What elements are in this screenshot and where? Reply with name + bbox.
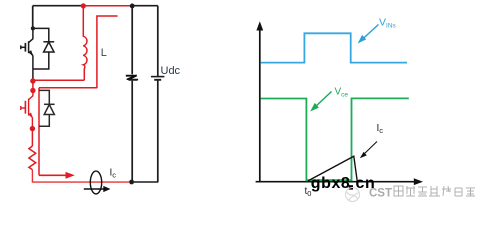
wire inductor bottom to midpoint [33, 79, 84, 81]
current probe arrow [84, 188, 106, 190]
watermark chinese glyphs [394, 186, 475, 196]
wire midpoint A to B [32, 81, 34, 91]
transistor Q1 emitter arrowhead [29, 50, 34, 56]
wire net B horizontal [39, 87, 97, 89]
svg-text:Ic: Ic [377, 123, 384, 135]
wire top rail red middle [83, 5, 132, 7]
wire branch D3 lower [131, 80, 133, 182]
node bottom junction [129, 180, 134, 185]
inductor L [83, 6, 87, 81]
node Q1 collector [31, 26, 35, 30]
battery Udc long plate [151, 76, 165, 78]
svg-text:L: L [101, 47, 107, 59]
svg-text:gbx8: gbx8 [311, 175, 351, 192]
transistor Q2 [21, 91, 33, 129]
waveform Vin cyan [261, 33, 407, 62]
transistor Q2 emitter arrowhead [29, 112, 33, 118]
wire Q1 to D1 top [33, 28, 49, 41]
diode D3 zener [126, 75, 138, 80]
wire bottom rail red [32, 170, 131, 183]
wire Q2 emitter to resistor [31, 129, 33, 146]
node top rail black junction [130, 4, 135, 9]
wire D2 top loop [39, 90, 49, 104]
x axis [256, 181, 416, 183]
arrow current direction [39, 174, 67, 176]
node top rail red junction [81, 3, 86, 8]
arrow Ic chart [363, 142, 377, 156]
wire branch D3 upper [131, 6, 133, 75]
wire branch Udc upper [157, 6, 159, 76]
wire D2 bottom loop [39, 115, 49, 127]
svg-text:VINs: VINs [379, 17, 397, 30]
arrow VINs [362, 25, 379, 41]
arrow Vce [315, 92, 332, 108]
current probe ellipse [90, 171, 101, 194]
node midpoint B [30, 88, 35, 93]
wire Q1 collector drop [32, 6, 34, 29]
wire Q1 emitter to midpoint [32, 69, 34, 81]
diode D2 [44, 104, 55, 114]
wire bottom black [132, 181, 159, 183]
node midpoint A [30, 78, 35, 83]
logo CST swirl [346, 188, 360, 202]
y axis [259, 29, 261, 182]
wire probe stub top [97, 16, 117, 88]
wire net B down [38, 88, 40, 176]
resistor R1 [29, 146, 36, 170]
node Q2 emitter [30, 126, 35, 131]
svg-text:Ic: Ic [110, 168, 117, 180]
battery Udc short plate [154, 79, 161, 81]
wire branch Udc lower [157, 80, 159, 182]
svg-text:Vce: Vce [335, 87, 349, 99]
svg-text:CST: CST [369, 188, 392, 200]
diode D1 [43, 42, 54, 52]
wire top rail black left [33, 5, 84, 7]
wire D1 bottom loop [33, 52, 49, 69]
wire top rail black right [132, 5, 158, 7]
curve Ic [308, 156, 357, 182]
waveform Vce green [261, 98, 409, 180]
transistor Q1 [21, 28, 33, 69]
svg-text:Udc: Udc [161, 65, 181, 77]
